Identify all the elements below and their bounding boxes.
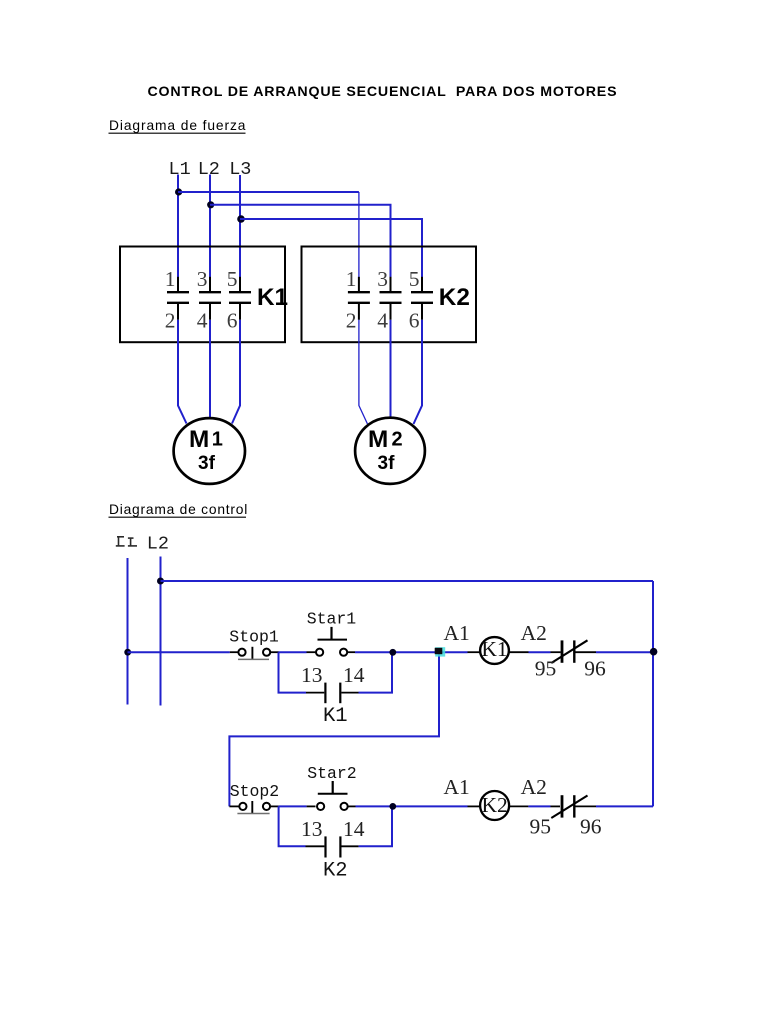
node interlock teal marker: [435, 647, 445, 656]
svg-text:1: 1: [346, 267, 357, 291]
wire phase L1 drop: [177, 175, 179, 278]
wire phase L2 drop: [209, 175, 211, 278]
svg-text:13: 13: [301, 663, 323, 687]
wire K2 pole 2 to motor M2: [390, 320, 392, 420]
svg-text:5: 5: [227, 267, 238, 291]
wire coil K1 to overload: [510, 651, 529, 653]
junction dot branch2 right: [389, 803, 396, 810]
svg-text:L2: L2: [198, 159, 220, 180]
svg-text:1: 1: [165, 267, 176, 291]
svg-text:A2: A2: [521, 621, 547, 645]
svg-text:95: 95: [530, 815, 552, 839]
svg-text:3: 3: [197, 267, 208, 291]
wire rung1 left: [128, 651, 230, 653]
svg-text:K1: K1: [481, 637, 507, 661]
svg-text:Diagrama de fuerza: Diagrama de fuerza: [109, 118, 246, 133]
svg-text:1: 1: [212, 428, 223, 450]
svg-text:A1: A1: [444, 775, 470, 799]
contactor K1 box: [120, 247, 285, 343]
svg-text:13: 13: [301, 817, 323, 841]
svg-text:Star1: Star1: [307, 609, 357, 628]
wire K2 pole 3 to motor M2: [414, 320, 423, 424]
overload contact 95-96 rung2: [551, 795, 597, 818]
svg-text:4: 4: [197, 308, 208, 332]
contact K2 aux 13-14: [326, 836, 341, 857]
pushbutton Stop2: [229, 801, 278, 814]
svg-text:K2: K2: [481, 793, 507, 817]
svg-text:96: 96: [584, 657, 606, 681]
svg-text:3f: 3f: [378, 453, 396, 474]
wire to coil K2: [468, 805, 481, 807]
svg-text:K1: K1: [257, 284, 288, 311]
svg-text:M: M: [368, 426, 388, 453]
contact K2 pole 2 (3-4): [380, 277, 402, 320]
wire star2 to coil K2: [356, 805, 468, 807]
junction dot L3: [237, 215, 245, 223]
contact K2 pole 3 (5-6): [411, 277, 433, 320]
junction dot L2 feeder: [157, 578, 164, 585]
svg-text:4: 4: [377, 308, 388, 332]
svg-text:96: 96: [580, 815, 602, 839]
wire overload to right rail rung1: [596, 651, 653, 653]
branch wire self-hold K2: [279, 806, 306, 846]
svg-text:A1: A1: [444, 621, 470, 645]
svg-text:Stop1: Stop1: [229, 627, 279, 646]
svg-text:Stop2: Stop2: [230, 782, 280, 801]
wire L3 to K2 pole 3: [240, 219, 422, 277]
wire interlock rung1 to rung2: [229, 652, 439, 806]
overload contact 95-96 rung1: [551, 640, 597, 663]
rail L1: [127, 558, 129, 705]
svg-text:6: 6: [227, 308, 238, 332]
wire coil K2 to overload: [509, 805, 528, 807]
svg-text:CONTROL DE ARRANQUE SECUENCIAL: CONTROL DE ARRANQUE SECUENCIAL PARA DOS …: [148, 84, 618, 100]
contact K1 pole 2 (3-4): [199, 277, 221, 320]
pushbutton Stop1: [230, 647, 279, 660]
contactor K2 box: [302, 247, 477, 343]
svg-text:K1: K1: [323, 705, 348, 728]
coil K1: [480, 637, 509, 664]
wire K1 pole 3 to motor M1: [232, 320, 240, 424]
contact K1 pole 1 (1-2): [167, 277, 189, 320]
svg-text:L1: L1: [169, 159, 191, 180]
rail L2: [160, 557, 162, 706]
wire phase L3 drop: [239, 175, 241, 277]
wire stop2 to star2: [279, 805, 307, 807]
svg-text:Star2: Star2: [307, 764, 357, 783]
branch wire self-hold K1: [279, 652, 307, 692]
svg-text:K2: K2: [323, 859, 348, 882]
svg-text:5: 5: [409, 267, 420, 291]
svg-text:3: 3: [377, 267, 388, 291]
junction dot L1: [175, 188, 182, 195]
wire K1 pole 2 to motor M1: [209, 320, 211, 420]
svg-text:A2: A2: [521, 775, 547, 799]
svg-text:2: 2: [165, 308, 176, 332]
wire star1 to node: [355, 651, 440, 653]
svg-text:K2: K2: [439, 284, 470, 311]
pushbutton Star1: [307, 627, 356, 656]
wire L1 to K2 pole 1: [178, 191, 359, 193]
svg-text:95: 95: [535, 656, 557, 680]
wire overload to right rail rung2: [596, 805, 653, 807]
contact K1 pole 3 (5-6): [229, 277, 251, 320]
svg-text:M: M: [189, 426, 209, 453]
wire L2 to K2 pole 2: [210, 205, 391, 277]
motor M2: [355, 418, 425, 484]
wire node to coil K1: [441, 651, 468, 653]
junction dot L2: [207, 201, 214, 208]
label L1 (top clipped): [116, 536, 137, 546]
svg-text:2: 2: [392, 428, 403, 450]
svg-text:14: 14: [343, 817, 365, 841]
junction dot rung1 left: [124, 649, 131, 656]
svg-text:Diagrama de control: Diagrama de control: [109, 502, 248, 517]
svg-text:L2: L2: [147, 533, 169, 554]
junction dot branch1 right: [389, 649, 396, 656]
svg-text:6: 6: [409, 308, 420, 332]
motor M1: [174, 418, 245, 484]
wire top feeder: [161, 580, 654, 582]
contact K1 aux 13-14: [325, 683, 340, 704]
svg-text:2: 2: [346, 308, 357, 332]
svg-text:14: 14: [343, 663, 365, 687]
contact K2 pole 1 (1-2): [348, 277, 370, 320]
wire K2 pole 1 to motor M2: [359, 320, 368, 424]
svg-text:3f: 3f: [198, 453, 216, 474]
junction dot rung1 right: [650, 648, 658, 656]
wire K1 pole 1 to motor M1: [178, 320, 187, 424]
rail right: [652, 581, 654, 806]
pushbutton Star2: [307, 781, 356, 810]
coil K2: [480, 791, 509, 820]
wire stop1 to star1: [279, 651, 307, 653]
